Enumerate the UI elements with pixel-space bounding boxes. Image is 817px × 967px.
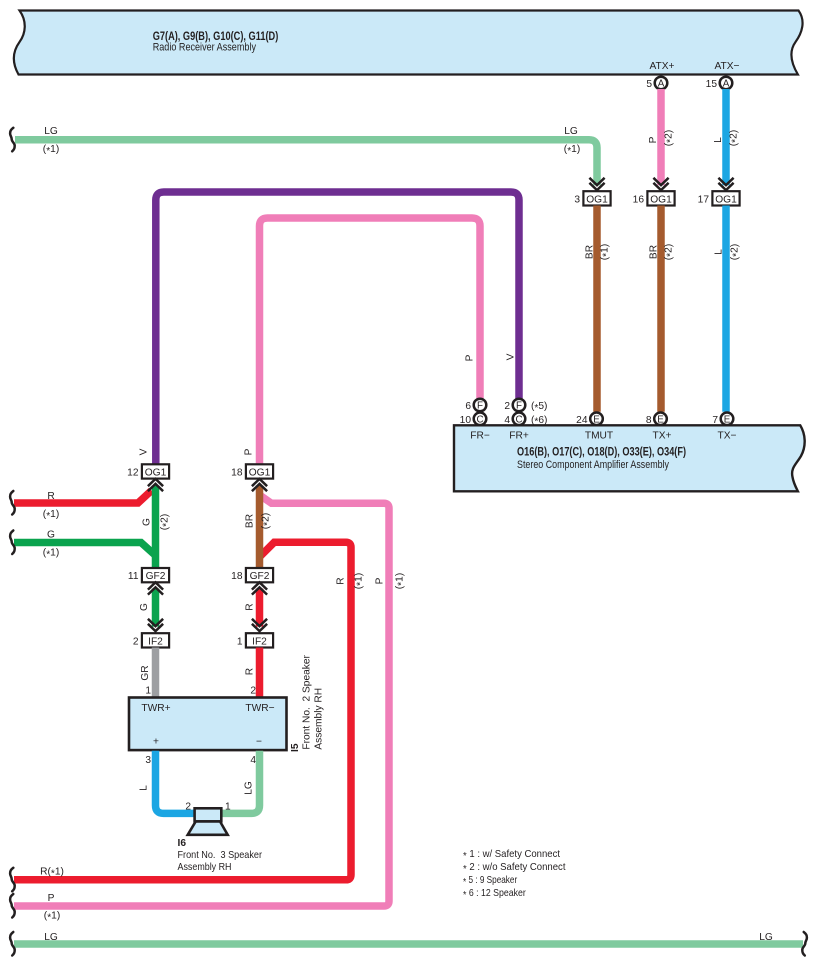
arrow chevron up into 12 OG1 bbox=[148, 479, 163, 491]
svg-text:* 5 : 9 Speaker: * 5 : 9 Speaker bbox=[463, 874, 518, 888]
label P (*1) on vertical bbox=[375, 573, 408, 589]
wire L from pin 15 ATX- down bbox=[722, 89, 730, 185]
svg-text:OG1: OG1 bbox=[715, 194, 737, 205]
svg-text:G: G bbox=[142, 518, 153, 526]
label G (*2) bbox=[142, 514, 173, 530]
svg-text:P: P bbox=[48, 893, 55, 904]
svg-text:P: P bbox=[465, 354, 476, 361]
pin 7 circle E on TX- bbox=[712, 413, 733, 426]
svg-text:* 1 : w/ Safety Connect: * 1 : w/ Safety Connect bbox=[463, 848, 560, 862]
svg-text:(*1): (*1) bbox=[354, 573, 367, 589]
svg-text:(*2): (*2) bbox=[160, 514, 173, 530]
svg-text:ATX−: ATX− bbox=[714, 61, 739, 72]
svg-text:16: 16 bbox=[633, 194, 645, 205]
svg-text:Front No. 3 Speaker: Front No. 3 Speaker bbox=[178, 849, 263, 861]
svg-text:12: 12 bbox=[127, 467, 139, 478]
svg-text:A: A bbox=[723, 79, 730, 90]
wire LG bottom full width bbox=[14, 940, 803, 948]
wire P from pin 5 ATX+ down bbox=[657, 89, 665, 185]
svg-text:TMUT: TMUT bbox=[585, 430, 613, 441]
svg-text:FR+: FR+ bbox=[509, 430, 529, 441]
svg-text:Front No. 2 Speaker: Front No. 2 Speaker bbox=[302, 654, 313, 749]
svg-text:1: 1 bbox=[237, 636, 243, 647]
arrow chevron into 17 OG1 bbox=[718, 178, 733, 190]
label BR (*2) left column bbox=[245, 513, 274, 529]
label G (*1) left bbox=[43, 530, 59, 561]
svg-text:IF2: IF2 bbox=[252, 636, 267, 647]
svg-text:−: − bbox=[256, 737, 262, 748]
svg-text:I6: I6 bbox=[178, 838, 187, 849]
svg-text:F: F bbox=[516, 401, 522, 412]
svg-text:OG1: OG1 bbox=[145, 467, 167, 478]
svg-text:(*1): (*1) bbox=[44, 911, 60, 924]
wire BR between 18 OG1 and 18 GF2 bbox=[256, 486, 264, 569]
wire L from 17 OG1 to pin 7 TX- bbox=[722, 206, 730, 412]
svg-text:(*1): (*1) bbox=[600, 244, 613, 260]
connector 1 IF2 bbox=[237, 633, 273, 647]
arrow chevron into 3 OG1 bbox=[589, 178, 604, 190]
connector box O16/O17/O18/O33/O34 Stereo Component Amplifier Assembly bbox=[454, 425, 805, 491]
svg-text:LG: LG bbox=[44, 126, 58, 137]
label L (*2) lower bbox=[714, 244, 743, 260]
wire V from 12 OG1 up over to pin 2 FR+ bbox=[156, 192, 519, 465]
svg-text:GF2: GF2 bbox=[250, 571, 270, 582]
connector 18 OG1 bbox=[231, 464, 273, 478]
wire G between 12 OG1 and 11 GF2 bbox=[152, 486, 160, 569]
wire G between 11 GF2 and 2 IF2 bbox=[152, 589, 160, 627]
svg-text:(*2): (*2) bbox=[730, 244, 743, 260]
svg-text:OG1: OG1 bbox=[586, 194, 608, 205]
svg-text:R: R bbox=[245, 668, 256, 675]
svg-text:V: V bbox=[506, 353, 517, 360]
svg-text:2: 2 bbox=[185, 802, 191, 813]
svg-text:* 6 : 12 Speaker: * 6 : 12 Speaker bbox=[463, 887, 526, 901]
label BR (*1) bbox=[585, 244, 613, 260]
label P (*1) bottom left bbox=[44, 893, 60, 923]
label P (*2) on ATX+ wire bbox=[648, 130, 676, 146]
wire BR from 16 OG1 to pin 8 TX+ bbox=[657, 206, 665, 412]
svg-text:3: 3 bbox=[145, 755, 151, 766]
svg-text:2: 2 bbox=[133, 636, 139, 647]
svg-text:8: 8 bbox=[646, 415, 652, 426]
svg-text:O16(B), O17(C), O18(D), O33(E): O16(B), O17(C), O18(D), O33(E), O34(F) bbox=[517, 447, 686, 459]
svg-text:L: L bbox=[713, 137, 724, 143]
svg-text:P: P bbox=[375, 577, 386, 584]
pin 24 circle E on TMUT bbox=[576, 413, 603, 426]
svg-text:2: 2 bbox=[250, 685, 256, 696]
svg-text:(*5): (*5) bbox=[531, 401, 547, 414]
continuation squiggle on LG wire left bbox=[10, 128, 15, 152]
connector 11 GF2 bbox=[128, 568, 169, 582]
label L (*2) on ATX- wire bbox=[713, 130, 741, 146]
svg-text:C: C bbox=[515, 414, 522, 425]
svg-text:24: 24 bbox=[576, 415, 588, 426]
svg-text:(*2): (*2) bbox=[729, 130, 742, 146]
connector box G7/G9/G10/G11 Radio Receiver Assembly bbox=[14, 11, 803, 75]
pin 6 circle F on FR- bbox=[465, 399, 486, 412]
svg-text:F: F bbox=[477, 401, 483, 412]
svg-text:Radio Receiver Assembly: Radio Receiver Assembly bbox=[153, 42, 257, 54]
wire BR from 3 OG1 to pin 24 TMUT bbox=[593, 206, 601, 412]
svg-text:ATX+: ATX+ bbox=[649, 61, 674, 72]
label BR (*2) bbox=[649, 244, 677, 260]
svg-text:L: L bbox=[139, 785, 150, 791]
svg-text:BR: BR bbox=[585, 245, 596, 259]
continuation squiggle on LG bottom left bbox=[10, 932, 15, 956]
arrow chevron up into 11 GF2 bbox=[148, 582, 163, 594]
svg-text:17: 17 bbox=[698, 194, 710, 205]
svg-text:P: P bbox=[244, 448, 255, 455]
svg-text:18: 18 bbox=[231, 571, 243, 582]
connector 16 OG1 bbox=[633, 191, 675, 205]
svg-text:R: R bbox=[245, 603, 256, 610]
svg-text:2: 2 bbox=[504, 401, 510, 412]
svg-text:R: R bbox=[47, 491, 54, 502]
pin 5 circle A bbox=[646, 77, 667, 90]
pin 15 circle A bbox=[706, 77, 733, 90]
svg-text:FR−: FR− bbox=[470, 430, 490, 441]
svg-text:A: A bbox=[658, 79, 665, 90]
connector 12 OG1 bbox=[127, 464, 169, 478]
wire P from 18 OG1 up over to pin 6 FR- bbox=[260, 218, 481, 465]
pin 10 circle C on FR- bbox=[460, 413, 487, 426]
svg-text:E: E bbox=[593, 414, 600, 425]
svg-text:15: 15 bbox=[706, 79, 718, 90]
svg-text:LG: LG bbox=[244, 781, 255, 795]
svg-text:P: P bbox=[648, 136, 659, 143]
svg-text:BR: BR bbox=[649, 245, 660, 259]
continuation squiggle on G wire left bbox=[10, 531, 15, 555]
wire LG from pin 4 to speaker I6 bbox=[222, 751, 260, 814]
label LG (*1) near corner bbox=[564, 126, 580, 157]
svg-text:TWR+: TWR+ bbox=[141, 703, 170, 714]
arrow chevron down into 1 IF2 bbox=[252, 619, 267, 631]
svg-text:10: 10 bbox=[460, 415, 472, 426]
svg-text:OG1: OG1 bbox=[650, 194, 672, 205]
svg-text:(*1): (*1) bbox=[395, 573, 408, 589]
svg-text:18: 18 bbox=[231, 467, 243, 478]
svg-text:V: V bbox=[139, 448, 150, 455]
svg-text:7: 7 bbox=[712, 415, 718, 426]
legend notes bbox=[463, 848, 566, 901]
label LG (*1) left bbox=[43, 126, 59, 157]
svg-text:R: R bbox=[336, 577, 347, 584]
svg-text:LG: LG bbox=[564, 126, 578, 137]
label R (*1) left bbox=[43, 491, 59, 522]
svg-text:* 2 : w/o Safety Connect: * 2 : w/o Safety Connect bbox=[463, 861, 566, 875]
pin 4 circle C on FR+ bbox=[504, 413, 547, 428]
svg-text:11: 11 bbox=[128, 571, 139, 582]
svg-text:G: G bbox=[139, 603, 150, 611]
svg-text:(*2): (*2) bbox=[664, 130, 677, 146]
svg-text:GR: GR bbox=[140, 665, 151, 680]
svg-text:+: + bbox=[153, 737, 159, 748]
svg-text:L: L bbox=[714, 249, 725, 255]
continuation squiggle on LG bottom right bbox=[802, 932, 807, 956]
wire R between 18 GF2 and 1 IF2 bbox=[256, 589, 264, 627]
svg-text:5: 5 bbox=[646, 79, 652, 90]
label R (*1) on vertical bbox=[336, 573, 367, 589]
wire R branch from above 18 GF2 to right vertical and bottom bbox=[14, 542, 351, 880]
wire R from left joining G wire below 12 OG1 bbox=[14, 491, 152, 504]
arrow chevron up into 18 GF2 bbox=[252, 582, 267, 594]
wire L from pin 3 to speaker I6 bbox=[156, 751, 195, 814]
pin 2 circle F on FR+ bbox=[504, 399, 547, 414]
label I6 Front No. 3 Speaker Assembly RH bbox=[178, 838, 263, 873]
continuation squiggle on P wire bottom left bbox=[10, 894, 15, 918]
svg-text:E: E bbox=[724, 414, 731, 425]
svg-text:(*1): (*1) bbox=[43, 144, 59, 157]
connector 17 OG1 bbox=[698, 191, 740, 205]
svg-text:I5: I5 bbox=[290, 743, 301, 752]
svg-text:GF2: GF2 bbox=[146, 571, 166, 582]
svg-text:TWR−: TWR− bbox=[245, 703, 274, 714]
svg-text:OG1: OG1 bbox=[249, 467, 271, 478]
connector 2 IF2 bbox=[133, 633, 169, 647]
speaker symbol I6 bbox=[188, 808, 228, 835]
svg-text:1: 1 bbox=[145, 685, 151, 696]
svg-text:Assembly RH: Assembly RH bbox=[314, 688, 325, 750]
connector 18 GF2 bbox=[231, 568, 273, 582]
svg-text:4: 4 bbox=[250, 755, 256, 766]
svg-text:IF2: IF2 bbox=[148, 636, 163, 647]
wire R from 1 IF2 to TWR- pin 2 bbox=[256, 648, 264, 698]
svg-text:C: C bbox=[476, 414, 483, 425]
wire P branch from 18 OG1 to right vertical bbox=[14, 495, 389, 906]
label I5 Front No. 2 Speaker Assembly RH bbox=[290, 654, 325, 752]
svg-text:LG: LG bbox=[44, 932, 58, 943]
connector box I5 Front No. 2 Speaker Assembly RH (TWR) bbox=[129, 698, 287, 751]
svg-text:(*2): (*2) bbox=[261, 513, 274, 529]
wire LG from left to connector 3 OG1 bbox=[15, 140, 597, 186]
arrow chevron into 16 OG1 bbox=[653, 178, 668, 190]
svg-text:E: E bbox=[657, 414, 664, 425]
svg-text:Assembly RH: Assembly RH bbox=[178, 861, 232, 873]
arrow chevron up into 18 OG1 bbox=[252, 479, 267, 491]
svg-text:1: 1 bbox=[225, 802, 231, 813]
svg-text:(*1): (*1) bbox=[43, 548, 59, 561]
svg-text:(*2): (*2) bbox=[664, 244, 677, 260]
svg-text:(*1): (*1) bbox=[43, 509, 59, 522]
svg-text:BR: BR bbox=[245, 514, 256, 528]
wire G from left joining G wire above 11 GF2 bbox=[14, 543, 156, 556]
svg-text:(*1): (*1) bbox=[564, 144, 580, 157]
svg-text:3: 3 bbox=[574, 194, 580, 205]
svg-text:(*6): (*6) bbox=[531, 415, 547, 428]
svg-text:4: 4 bbox=[504, 415, 510, 426]
connector 3 OG1 bbox=[574, 191, 610, 205]
svg-text:LG: LG bbox=[759, 932, 773, 943]
svg-text:R(*1): R(*1) bbox=[40, 867, 64, 880]
svg-text:Stereo Component Amplifier Ass: Stereo Component Amplifier Assembly bbox=[517, 459, 669, 471]
arrow chevron down into 2 IF2 bbox=[148, 619, 163, 631]
pin 8 circle E on TX+ bbox=[646, 413, 667, 426]
wire GR from 2 IF2 to TWR+ pin 1 bbox=[152, 648, 160, 698]
continuation squiggle on R wire bottom left bbox=[10, 868, 15, 892]
continuation squiggle on R wire left bbox=[10, 491, 15, 515]
svg-text:TX+: TX+ bbox=[653, 430, 672, 441]
svg-text:G: G bbox=[47, 530, 55, 541]
svg-text:6: 6 bbox=[465, 401, 471, 412]
svg-text:TX−: TX− bbox=[718, 430, 737, 441]
